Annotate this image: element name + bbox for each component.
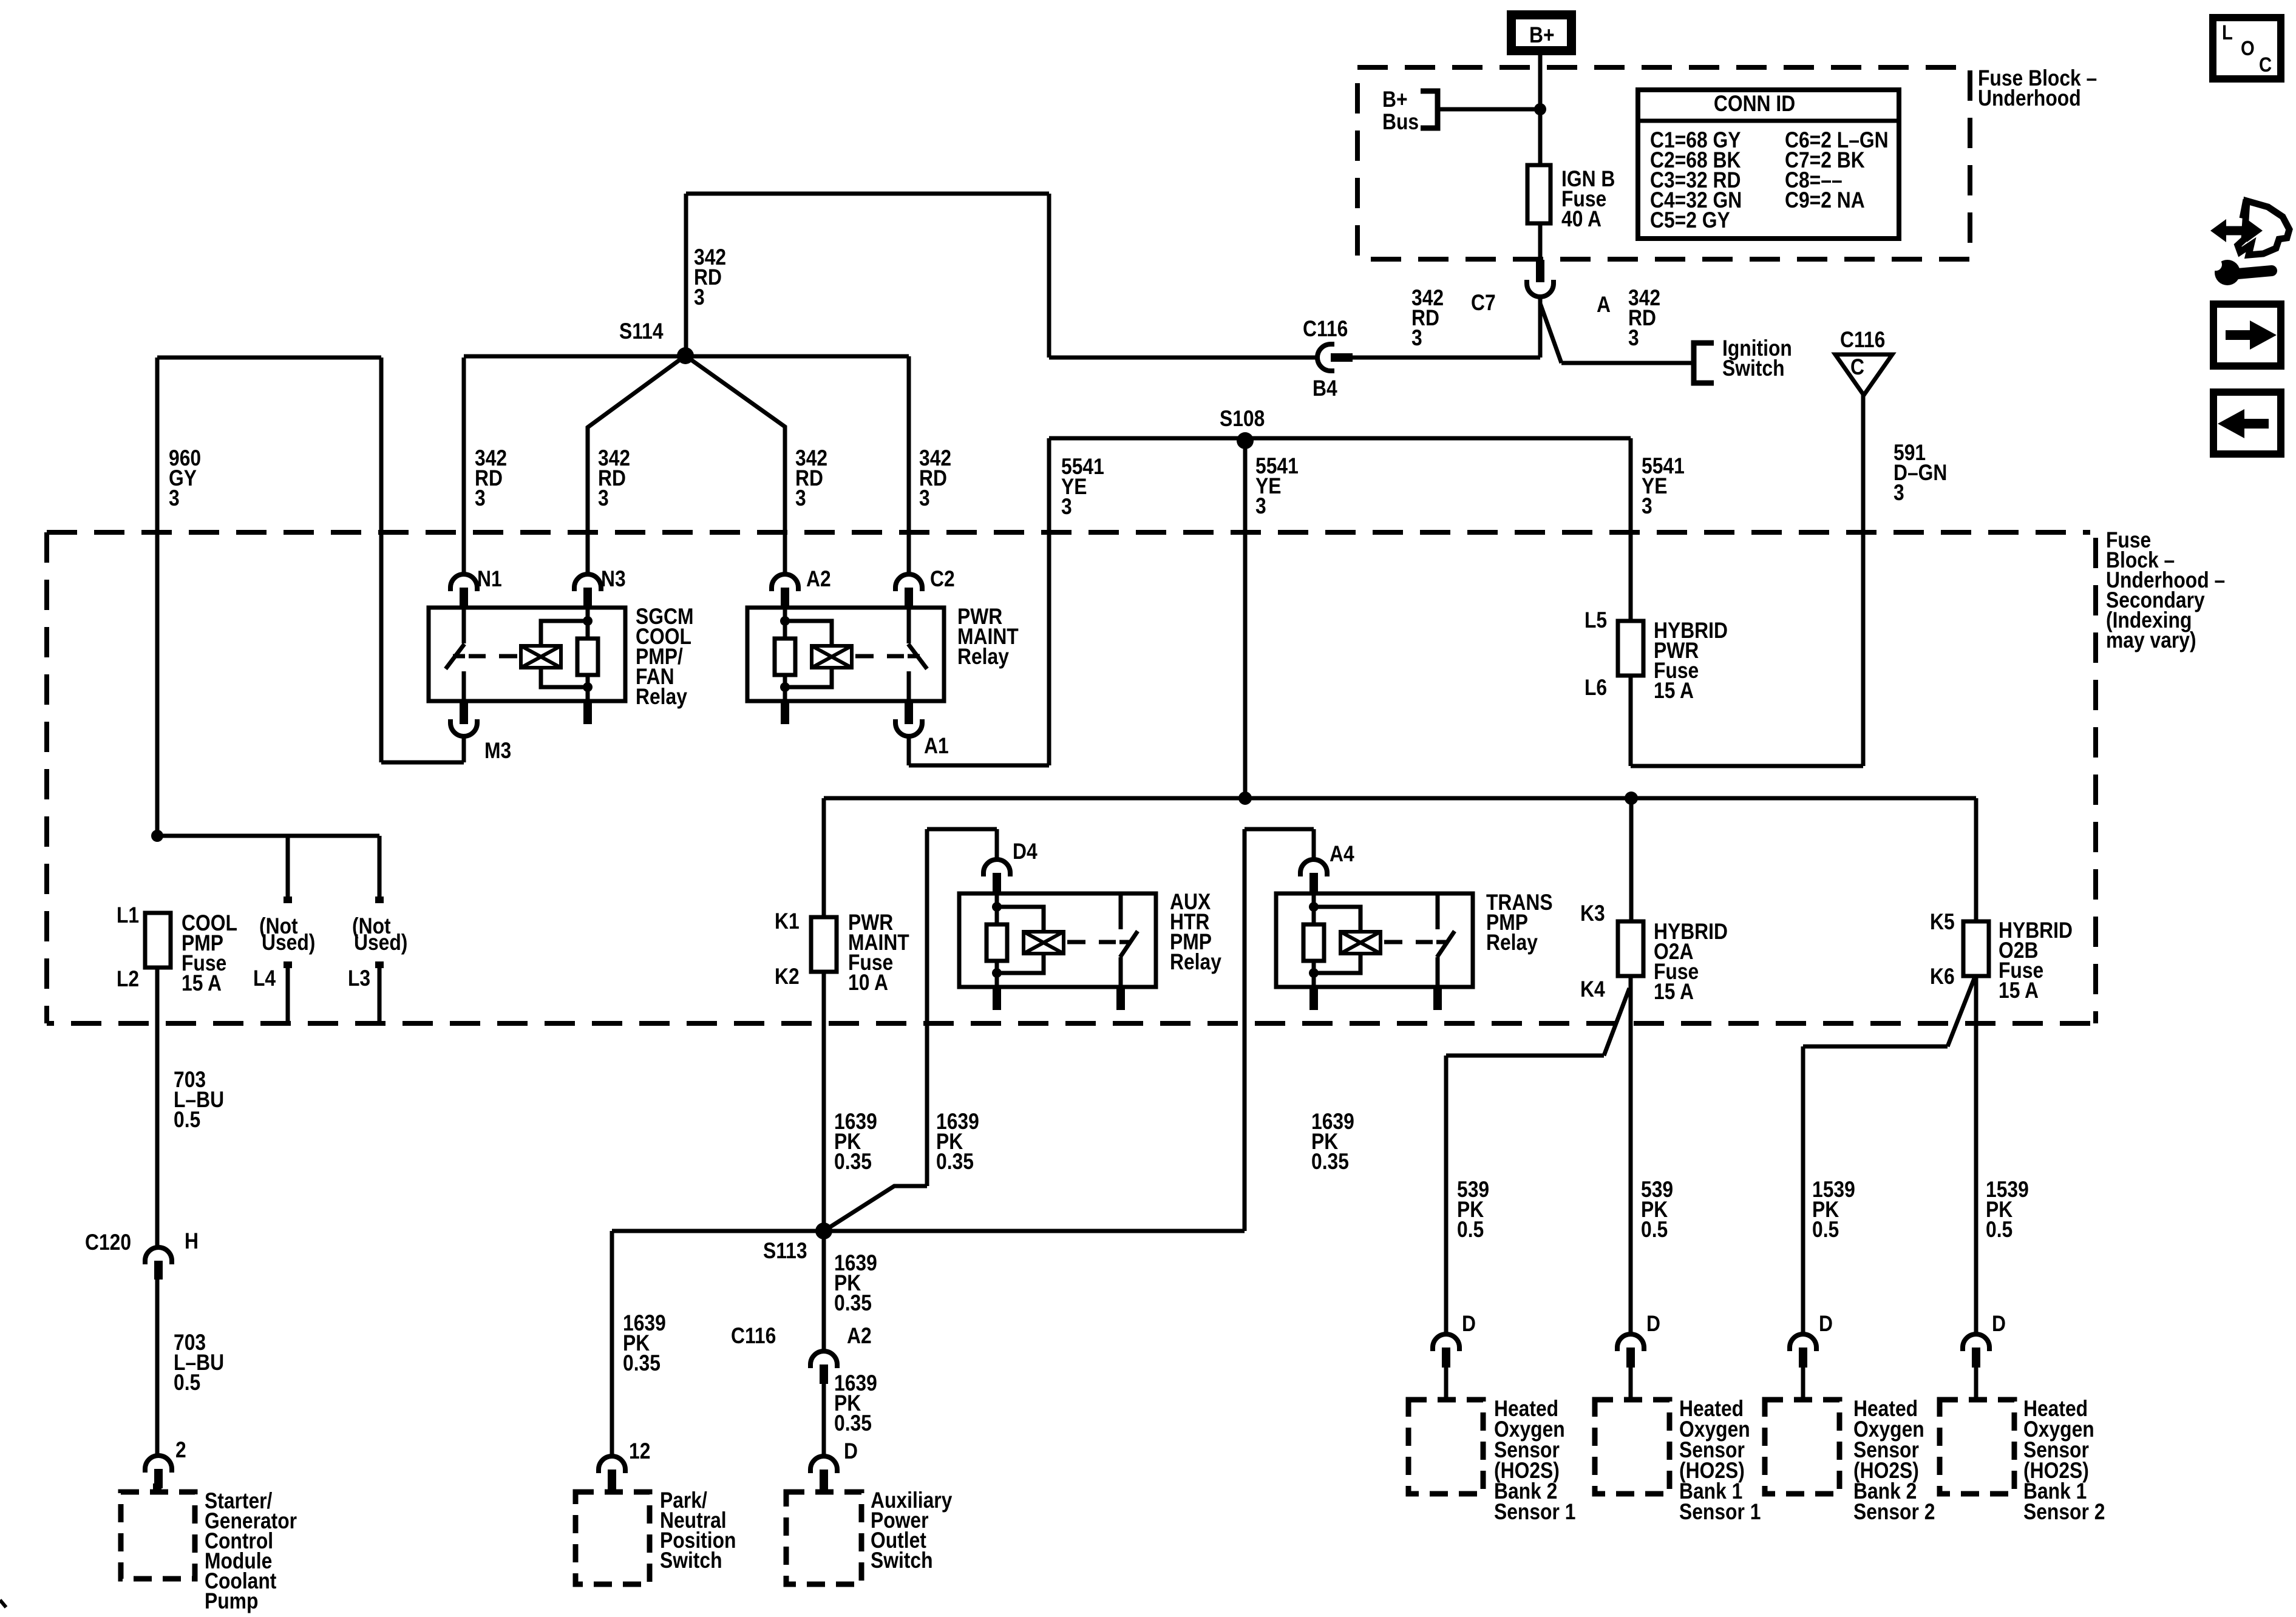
svg-text:0.35: 0.35 [936, 1150, 974, 1175]
svg-text:A2: A2 [806, 567, 831, 592]
svg-text:Switch: Switch [660, 1548, 722, 1573]
svg-text:C9=2 NA: C9=2 NA [1785, 188, 1865, 213]
svg-text:A2: A2 [847, 1324, 872, 1349]
svg-text:0.35: 0.35 [623, 1351, 661, 1376]
svg-text:L6: L6 [1584, 676, 1607, 700]
svg-text:L3: L3 [348, 966, 370, 991]
svg-text:C116: C116 [731, 1324, 776, 1349]
svg-text:C: C [2259, 53, 2272, 76]
svg-text:0.5: 0.5 [1812, 1218, 1839, 1242]
svg-text:3: 3 [1642, 494, 1652, 519]
svg-text:0.5: 0.5 [174, 1108, 200, 1133]
svg-text:3: 3 [1061, 495, 1072, 520]
svg-text:0.5: 0.5 [1457, 1218, 1484, 1242]
svg-text:0.5: 0.5 [174, 1371, 200, 1395]
svg-text:C: C [1850, 355, 1864, 380]
svg-text:D: D [844, 1439, 858, 1464]
svg-text:D: D [1646, 1312, 1660, 1337]
svg-text:B+: B+ [1529, 23, 1555, 48]
svg-text:15 A: 15 A [1654, 679, 1694, 703]
svg-text:3: 3 [919, 486, 930, 511]
svg-text:B+: B+ [1382, 87, 1408, 112]
svg-text:Relay: Relay [1486, 931, 1538, 955]
svg-text:S113: S113 [763, 1239, 807, 1264]
svg-text:0.35: 0.35 [834, 1150, 872, 1175]
svg-text:K4: K4 [1580, 977, 1605, 1002]
svg-text:C116: C116 [1840, 328, 1885, 353]
svg-text:Pump: Pump [205, 1589, 258, 1614]
svg-text:K2: K2 [775, 964, 800, 989]
svg-text:0.5: 0.5 [1641, 1218, 1668, 1242]
svg-text:Relay: Relay [957, 645, 1009, 670]
svg-text:0.35: 0.35 [1311, 1150, 1349, 1175]
svg-text:K3: K3 [1580, 901, 1605, 926]
svg-text:D4: D4 [1013, 839, 1038, 864]
svg-text:K6: K6 [1930, 964, 1955, 989]
svg-text:D: D [1992, 1312, 2006, 1337]
svg-text:Switch: Switch [1722, 356, 1785, 381]
svg-text:15 A: 15 A [1654, 980, 1694, 1005]
svg-text:L4: L4 [253, 966, 276, 991]
svg-text:3: 3 [1628, 326, 1639, 351]
svg-text:may vary): may vary) [2106, 628, 2196, 653]
svg-text:CONN ID: CONN ID [1714, 92, 1795, 117]
svg-text:L2: L2 [117, 967, 139, 992]
svg-text:15 A: 15 A [1999, 978, 2039, 1003]
svg-text:B4: B4 [1313, 376, 1337, 401]
svg-text:L1: L1 [117, 903, 139, 928]
svg-text:C5=2 GY: C5=2 GY [1650, 208, 1730, 233]
svg-text:Sensor 1: Sensor 1 [1494, 1500, 1575, 1525]
svg-text:Used): Used) [354, 931, 407, 955]
svg-text:Bus: Bus [1382, 110, 1419, 135]
svg-text:3: 3 [694, 285, 705, 310]
svg-text:K1: K1 [775, 909, 800, 934]
svg-text:3: 3 [169, 486, 180, 511]
svg-text:3: 3 [795, 486, 806, 511]
svg-text:M3: M3 [484, 739, 511, 764]
svg-text:K5: K5 [1930, 910, 1955, 935]
svg-text:N3: N3 [601, 567, 626, 592]
svg-text:L: L [2222, 21, 2233, 44]
svg-text:C2: C2 [930, 567, 955, 592]
svg-text:C7: C7 [1471, 291, 1496, 316]
svg-text:2: 2 [175, 1438, 186, 1463]
svg-text:Relay: Relay [636, 685, 687, 710]
svg-text:Sensor 2: Sensor 2 [1853, 1500, 1935, 1525]
svg-text:15 A: 15 A [182, 971, 222, 996]
svg-text:A: A [1597, 293, 1611, 317]
svg-text:L5: L5 [1584, 608, 1607, 633]
svg-text:40 A: 40 A [1561, 207, 1601, 232]
svg-text:S114: S114 [619, 319, 664, 344]
svg-text:S108: S108 [1220, 407, 1265, 432]
svg-text:A1: A1 [924, 734, 949, 759]
svg-text:0.35: 0.35 [834, 1411, 872, 1436]
svg-text:Switch: Switch [871, 1548, 933, 1573]
svg-text:Used): Used) [262, 931, 315, 955]
svg-text:0.5: 0.5 [1986, 1218, 2012, 1242]
svg-text:3: 3 [1894, 481, 1904, 506]
svg-text:Relay: Relay [1170, 950, 1221, 975]
svg-text:3: 3 [598, 486, 609, 511]
svg-text:C116: C116 [1303, 317, 1348, 342]
svg-text:3: 3 [1255, 494, 1266, 519]
svg-text:10 A: 10 A [848, 971, 888, 995]
svg-text:D: D [1462, 1312, 1476, 1337]
svg-text:H: H [185, 1229, 199, 1254]
svg-text:A4: A4 [1330, 842, 1354, 867]
svg-text:N1: N1 [477, 567, 502, 592]
svg-text:D: D [1819, 1312, 1833, 1337]
svg-text:3: 3 [475, 486, 486, 511]
svg-text:C120: C120 [85, 1230, 131, 1255]
svg-text:3: 3 [1411, 326, 1422, 351]
svg-text:0.35: 0.35 [834, 1291, 872, 1316]
svg-text:Sensor 2: Sensor 2 [2023, 1500, 2105, 1525]
svg-text:O: O [2241, 36, 2255, 60]
svg-text:12: 12 [629, 1439, 650, 1464]
svg-text:Underhood: Underhood [1978, 86, 2081, 111]
svg-text:Sensor 1: Sensor 1 [1679, 1500, 1761, 1525]
